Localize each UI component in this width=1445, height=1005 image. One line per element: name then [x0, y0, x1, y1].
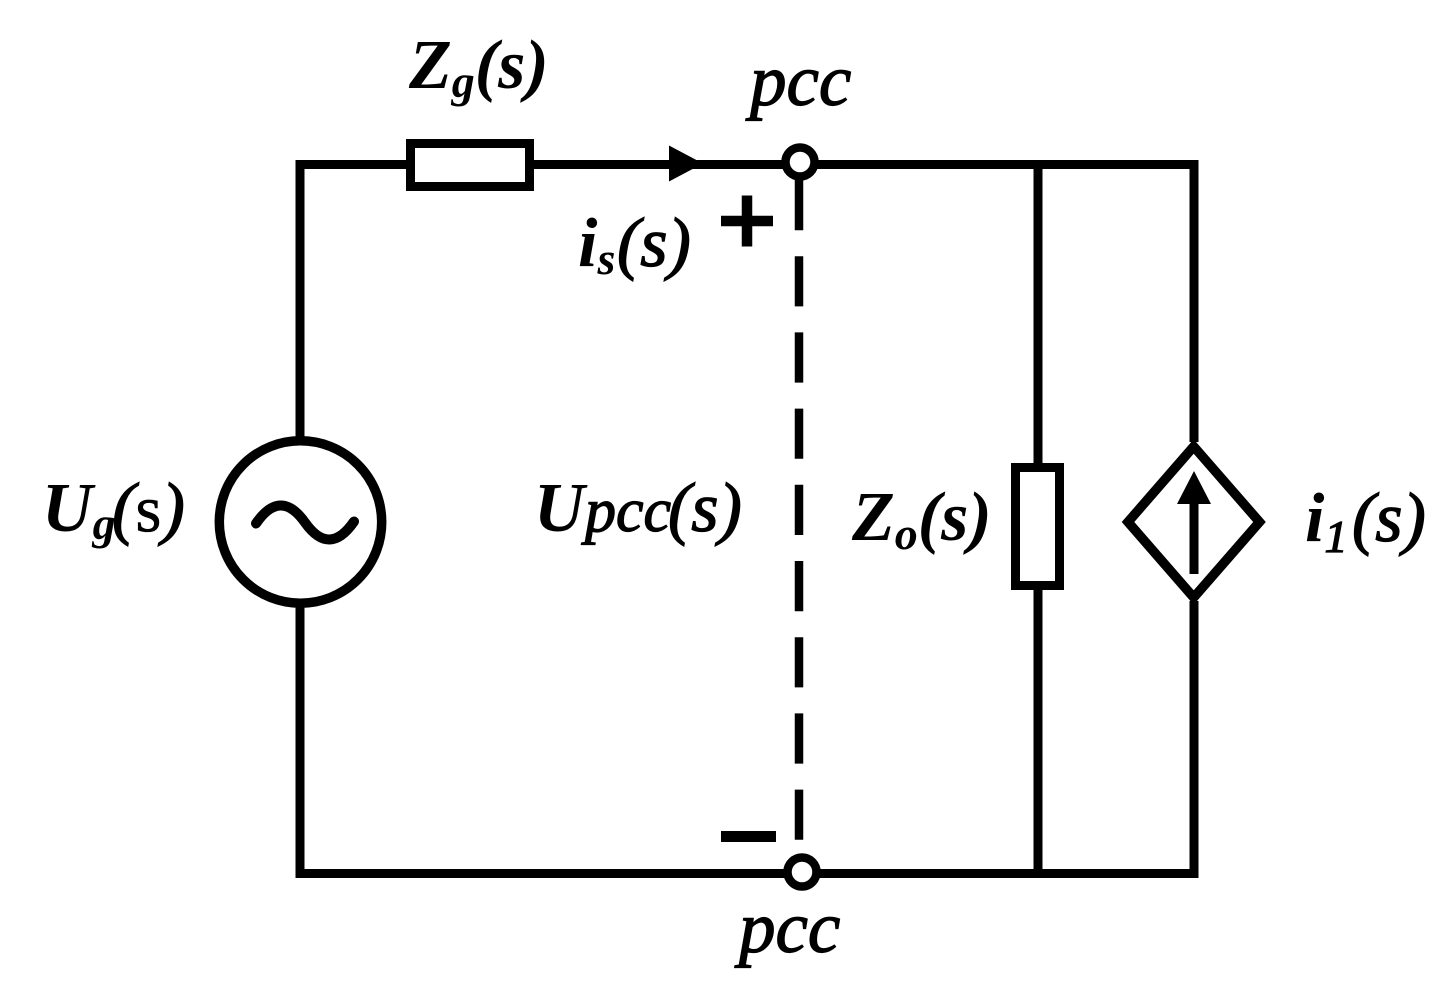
svg-text:pcc: pcc	[734, 887, 840, 968]
svg-text:U: U	[534, 470, 588, 547]
wire top from source to pcc node and right	[296, 160, 1199, 169]
resistor Zg body	[411, 144, 530, 187]
current source i1 diamond	[1128, 447, 1260, 598]
dashed line between pcc nodes	[795, 180, 804, 840]
wire right vertical upper	[1190, 160, 1199, 442]
arrow inside diamond	[1190, 500, 1199, 574]
plus sign	[721, 196, 773, 247]
svg-text:(s): (s)	[1352, 480, 1426, 557]
wire left vertical lower	[296, 604, 305, 878]
sine wave inside source	[256, 505, 354, 539]
wire right vertical lower	[1190, 601, 1199, 878]
node pcc top	[786, 148, 815, 177]
svg-text:Zg(s): Zg(s)	[408, 27, 549, 107]
current arrow on top wire	[669, 146, 703, 182]
resistor Zo body	[1016, 468, 1060, 586]
svg-text:Zo(s): Zo(s)	[851, 479, 992, 559]
wire Zo branch lower	[1034, 586, 1043, 878]
wire left vertical upper	[296, 160, 305, 440]
svg-text:pcc: pcc	[581, 477, 671, 545]
node pcc bottom	[788, 858, 817, 887]
svg-text:pcc: pcc	[745, 40, 851, 121]
voltage source U_g circle	[219, 441, 381, 603]
svg-text:(s): (s)	[668, 470, 742, 547]
svg-text:(s): (s)	[617, 205, 691, 282]
wire Zo branch upper	[1034, 160, 1043, 467]
wire bottom	[296, 869, 1199, 878]
minus sign	[721, 831, 776, 842]
